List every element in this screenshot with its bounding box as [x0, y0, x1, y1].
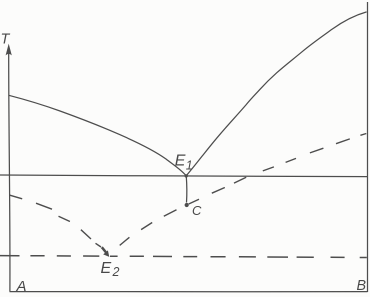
- dashed metastable liquidus descending toward E2: [9, 195, 101, 247]
- solid liquidus curve B-side rising from E1: [186, 12, 366, 176]
- arrowhead at E2: [103, 250, 109, 257]
- svg-text:B: B: [357, 278, 367, 294]
- axis arrowhead: [6, 44, 12, 56]
- svg-text:1: 1: [186, 159, 193, 173]
- horizontal solid eutectic line through E1: [0, 175, 368, 177]
- svg-text:T: T: [1, 32, 11, 48]
- right border (B side axis): [367, 2, 369, 292]
- svg-text:C: C: [192, 203, 202, 218]
- svg-text:A: A: [16, 278, 27, 295]
- point C: [185, 203, 189, 207]
- axis T (vertical left axis): [9, 50, 10, 292]
- svg-text:2: 2: [112, 265, 120, 279]
- svg-text:E: E: [175, 152, 186, 169]
- solid liquidus curve A-side descending to E1: [9, 95, 186, 176]
- tie line E1 down to C: [185, 177, 188, 203]
- dashed metastable liquidus from E2 through C rising to right: [120, 134, 367, 246]
- bottom border (composition axis): [10, 291, 368, 293]
- horizontal dashed eutectic line through E2: [0, 256, 367, 258]
- point E1: [185, 174, 188, 177]
- svg-text:E: E: [101, 260, 112, 277]
